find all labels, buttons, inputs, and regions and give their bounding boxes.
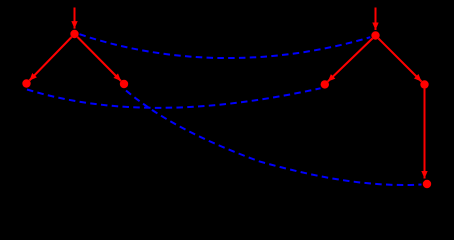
edge tree1 root to left leaf [29, 37, 71, 81]
dashed link C: tree1 right leaf to tree2 bottom node [126, 91, 422, 185]
node tree2 left leaf [321, 80, 329, 88]
edge tree1 root to right leaf [78, 37, 122, 81]
dashed link B: tree1 left leaf to tree2 left leaf [27, 88, 321, 108]
edge tree2 right child to bottom node [424, 89, 426, 179]
node tree2 bottom leaf [423, 180, 431, 188]
node tree1 right leaf [120, 80, 128, 88]
edge tree2 root to left leaf [328, 38, 373, 81]
arrow into tree1 root [74, 8, 76, 29]
node tree2 root [371, 31, 379, 39]
arrow into tree2 root [375, 8, 377, 31]
edge tree2 root to right child [379, 39, 422, 82]
node tree2 right child [420, 80, 428, 88]
dashed link A: tree1 root to tree2 root [80, 34, 371, 58]
node tree1 left leaf [22, 79, 30, 87]
node tree1 root [70, 30, 78, 38]
